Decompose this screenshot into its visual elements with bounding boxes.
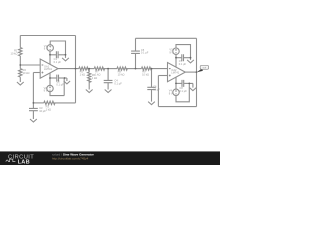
ground C3 bbox=[30, 119, 37, 122]
resistor R9 bbox=[142, 67, 152, 70]
wire op-amp output bbox=[58, 68, 79, 70]
footer logo waveform bbox=[6, 159, 16, 162]
ground upper bypass bbox=[62, 55, 69, 61]
component labels bbox=[11, 44, 188, 113]
node R6 bbox=[88, 68, 90, 70]
voltage source V2 bbox=[47, 85, 53, 91]
capacitor C6 branch down bbox=[151, 69, 153, 88]
net flag out bbox=[197, 65, 209, 72]
wire left feedback loop top bbox=[20, 35, 75, 37]
capacitor C2 bbox=[57, 75, 59, 82]
resistor R6 shunt bbox=[88, 69, 90, 72]
wire V- pin bbox=[49, 73, 51, 85]
svg-text:0.1 μF: 0.1 μF bbox=[56, 83, 64, 87]
wire op-amp non-inverting input bbox=[33, 72, 40, 74]
wire R2 to ground bbox=[19, 77, 21, 82]
op-amp OA1 plus mark bbox=[42, 72, 44, 74]
svg-text:10 μF: 10 μF bbox=[153, 88, 160, 92]
svg-text:out: out bbox=[203, 66, 207, 70]
wire bypass V4 bbox=[176, 82, 182, 84]
wire left rail upper bbox=[19, 36, 21, 48]
svg-text:10 kΩ: 10 kΩ bbox=[11, 51, 18, 55]
node out2 bbox=[196, 71, 198, 73]
node minus input left bbox=[19, 64, 21, 66]
node V3 bypass bbox=[175, 57, 177, 59]
node V+ bypass left bbox=[49, 54, 51, 56]
ground left rail bbox=[17, 82, 24, 85]
node C4 bbox=[107, 68, 109, 70]
svg-text:0.1 μF: 0.1 μF bbox=[114, 82, 122, 86]
node C6 bbox=[151, 68, 153, 70]
capacitor C7 bbox=[182, 54, 184, 61]
svg-text:1 kΩ: 1 kΩ bbox=[95, 73, 100, 77]
resistor R2 bbox=[19, 69, 22, 77]
op-amp OA2 minus mark bbox=[169, 68, 171, 70]
ground R6 bbox=[86, 90, 93, 93]
capacitor C4 shunt bbox=[107, 69, 109, 81]
wire op-amp 2 output bbox=[185, 71, 196, 73]
wire right plus rail bbox=[157, 76, 159, 107]
wire left feedback rail right bbox=[75, 36, 77, 103]
svg-text:9 V: 9 V bbox=[44, 89, 48, 93]
svg-text:LM741: LM741 bbox=[171, 71, 179, 75]
svg-text:9 V: 9 V bbox=[44, 47, 48, 51]
voltage source V1 bbox=[47, 45, 53, 51]
wire right feedback top bbox=[136, 37, 197, 39]
wire V- pin op-amp 2 bbox=[175, 77, 177, 89]
wire V3 top loop bbox=[176, 45, 191, 58]
footer bar bbox=[0, 150, 220, 153]
node lower bypass corner bbox=[64, 77, 66, 79]
wire R5 to R7 bbox=[87, 68, 94, 70]
svg-text:http://circuitlab.com/c745y4: http://circuitlab.com/c745y4 bbox=[52, 156, 89, 160]
wire R7 to R8 bbox=[102, 68, 117, 70]
voltage source V4 bbox=[173, 89, 179, 95]
svg-text:1 kΩ: 1 kΩ bbox=[46, 107, 51, 111]
voltage source V3 bbox=[173, 48, 179, 54]
junction dots bbox=[19, 54, 197, 104]
capacitor C8 bbox=[182, 80, 184, 87]
wire V1 top loop bbox=[50, 41, 65, 55]
node V4 bypass bbox=[175, 83, 177, 85]
resistor R3 bbox=[44, 101, 55, 104]
node C7 corner bbox=[190, 57, 192, 59]
ground C7 bbox=[187, 58, 194, 63]
wire bypass lower bbox=[50, 77, 56, 79]
node C5 bbox=[135, 68, 137, 70]
op-amp OA2 plus mark bbox=[169, 75, 171, 77]
capacitor C5 branch up bbox=[135, 53, 137, 68]
svg-text:LAB: LAB bbox=[18, 160, 30, 165]
node output left bbox=[75, 68, 77, 70]
svg-text:1 kΩ: 1 kΩ bbox=[92, 76, 97, 80]
ground C4 bbox=[105, 90, 112, 93]
resistor R7 bbox=[94, 67, 104, 70]
svg-text:0.1 μF: 0.1 μF bbox=[54, 60, 62, 64]
ground C6 bbox=[148, 102, 155, 105]
resistor R8 bbox=[117, 67, 127, 70]
op-amp OA1 bbox=[40, 59, 58, 78]
node C8 corner bbox=[188, 83, 190, 85]
svg-text:10 kΩ: 10 kΩ bbox=[23, 71, 30, 75]
node upper bypass corner bbox=[65, 54, 67, 56]
wire R8 to R9 bbox=[126, 68, 142, 70]
svg-text:9 V: 9 V bbox=[169, 50, 173, 54]
wire V+ pin bbox=[49, 51, 51, 64]
capacitor C3 bbox=[29, 108, 38, 110]
resistor R5 bbox=[79, 67, 89, 70]
wire bypass upper bbox=[50, 54, 56, 56]
node V- bypass left bbox=[49, 77, 51, 79]
wire R3 to rail bbox=[54, 102, 75, 104]
wire V2 bottom loop bbox=[50, 78, 64, 96]
wire lower-left branch bbox=[33, 102, 43, 104]
svg-text:0.1 μF: 0.1 μF bbox=[179, 89, 187, 93]
svg-text:LM741: LM741 bbox=[44, 67, 52, 71]
wire plus-input rail down bbox=[32, 73, 34, 103]
ground lower bypass bbox=[64, 78, 70, 84]
svg-text:0.1 μF: 0.1 μF bbox=[179, 62, 187, 66]
svg-text:10 kΩ: 10 kΩ bbox=[118, 73, 125, 77]
ground C8 bbox=[189, 83, 196, 90]
wire V4 bottom loop bbox=[176, 83, 189, 101]
wire right feedback rail bbox=[196, 38, 198, 106]
wire op-amp 2 plus input bbox=[158, 75, 167, 77]
svg-text:0.1 μF: 0.1 μF bbox=[141, 51, 149, 55]
capacitor C1 bbox=[56, 51, 58, 58]
wire R9 to op-amp 2 bbox=[150, 68, 168, 70]
wire right bottom bbox=[158, 106, 196, 108]
svg-text:1 kΩ: 1 kΩ bbox=[80, 73, 85, 77]
wire V+ pin op-amp 2 bbox=[175, 54, 177, 67]
svg-text:9 V: 9 V bbox=[169, 92, 173, 96]
op-amp OA2 bbox=[168, 63, 186, 82]
node lower-left branch bbox=[33, 102, 35, 104]
svg-text:10 kΩ: 10 kΩ bbox=[142, 73, 149, 77]
wire bypass V3 bbox=[176, 57, 181, 59]
wire R1 to node bbox=[19, 56, 21, 69]
wire op-amp inverting input bbox=[20, 64, 40, 66]
op-amp OA1 minus mark bbox=[42, 64, 44, 66]
resistor R1 bbox=[19, 48, 22, 56]
